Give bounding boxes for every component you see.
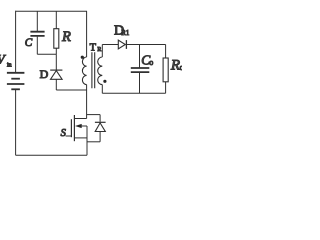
wire diode D anode <box>55 79 57 90</box>
diode DR1 triangle <box>118 40 125 49</box>
body diode top branch <box>87 114 101 116</box>
wire primary bottom to drain <box>86 85 88 119</box>
svg-text:in: in <box>7 62 12 68</box>
svg-text:S: S <box>61 128 67 139</box>
wire capacitor Co lower <box>139 73 141 94</box>
transformer TR secondary winding <box>98 57 103 85</box>
wire resistor R lower <box>55 48 57 54</box>
capacitor Co plates <box>131 68 150 72</box>
transformer TR primary winding <box>82 57 86 85</box>
mosfet S gate lead <box>66 135 72 137</box>
svg-text:o: o <box>180 62 182 72</box>
svg-text:R: R <box>97 47 101 53</box>
capacitor C plates <box>30 32 44 36</box>
resistor RL body <box>163 58 168 82</box>
wire D to drain node <box>56 89 86 91</box>
wire capacitor Co upper <box>139 45 141 68</box>
svg-text:V: V <box>0 53 7 67</box>
body diode triangle <box>95 123 105 132</box>
battery Vin plate short 4 <box>11 88 20 90</box>
wire snubber join <box>37 53 56 55</box>
wire to diode D <box>55 54 57 70</box>
body diode cathode bar <box>95 121 106 123</box>
wire output top right <box>126 44 165 46</box>
svg-text:o: o <box>149 58 153 67</box>
wire resistor RL upper <box>165 45 167 59</box>
svg-text:T: T <box>90 42 97 53</box>
wire capacitor C drop <box>36 11 38 31</box>
svg-text:R1: R1 <box>121 30 129 37</box>
battery Vin plate long 3 <box>7 83 25 85</box>
body diode cathode lead <box>99 115 101 122</box>
wire output bottom rail <box>102 92 165 94</box>
mosfet S gate plate <box>70 119 72 137</box>
svg-text:C: C <box>25 37 33 49</box>
wire primary top <box>86 11 88 57</box>
mosfet S channel <box>73 115 75 141</box>
wire capacitor C lower <box>36 37 38 55</box>
wire bottom rail <box>16 154 87 156</box>
dot secondary polarity <box>103 80 106 83</box>
wire output top left <box>102 44 118 46</box>
wire secondary top riser <box>101 45 103 58</box>
battery Vin plate long 1 <box>7 72 25 74</box>
body diode anode lead <box>99 132 101 142</box>
wire resistor R drop <box>55 11 57 29</box>
transformer core <box>92 52 95 88</box>
wire top rail <box>16 10 87 12</box>
wire left rail lower <box>15 89 17 155</box>
dot primary polarity <box>81 56 84 59</box>
wire left rail upper <box>15 11 17 73</box>
diode D cathode bar <box>50 69 62 71</box>
wire secondary bottom riser <box>101 85 103 94</box>
mosfet S source stub <box>74 137 87 139</box>
mosfet S source vertical <box>86 126 88 155</box>
resistor R body <box>54 29 59 49</box>
svg-text:R: R <box>61 29 71 45</box>
body diode anode branch <box>87 141 100 143</box>
svg-text:R: R <box>170 57 180 73</box>
diode DR1 cathode bar <box>125 40 127 49</box>
mosfet S body arrow <box>81 125 87 127</box>
battery Vin plate short 2 <box>11 78 20 80</box>
diode D triangle <box>51 71 63 80</box>
wire resistor RL lower <box>165 82 167 94</box>
svg-text:D: D <box>40 67 49 81</box>
mosfet S drain stub <box>74 118 86 120</box>
